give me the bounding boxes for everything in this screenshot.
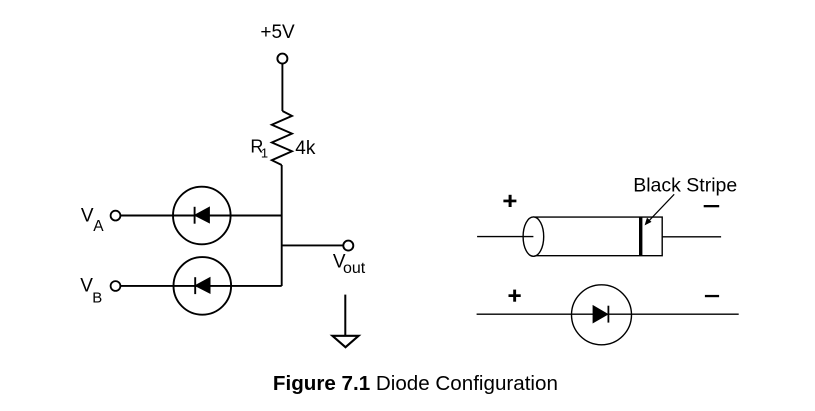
- label - (package cathode): [704, 205, 720, 207]
- svg-text:A: A: [93, 218, 104, 235]
- diode symbol: [593, 306, 608, 323]
- label + (package anode): [503, 195, 516, 207]
- label Vout: [333, 252, 366, 278]
- black stripe mark: [639, 217, 642, 256]
- resistor R1: [272, 111, 292, 165]
- label - (symbol cathode): [705, 295, 719, 297]
- diode D2 circle: [174, 257, 232, 315]
- svg-text:B: B: [92, 289, 102, 306]
- wire package right lead: [662, 236, 721, 238]
- diode D1 circle: [173, 187, 231, 245]
- wire VB input: [121, 285, 282, 287]
- diode D1 symbol: [195, 207, 210, 224]
- wire +5V terminal to resistor top: [281, 64, 283, 111]
- node +5V label: [260, 22, 295, 43]
- value label 4k: [295, 138, 316, 159]
- svg-text:Figure 7.1 Diode Configuration: Figure 7.1 Diode Configuration: [273, 372, 558, 395]
- pointer arrow to stripe: [645, 194, 675, 225]
- package body: [533, 217, 662, 256]
- wire resistor bottom to output bus: [281, 165, 283, 286]
- wire to Vout terminal: [282, 244, 344, 246]
- svg-text:+5V: +5V: [260, 22, 295, 43]
- svg-text:V: V: [81, 206, 94, 227]
- terminal VA: [111, 211, 121, 221]
- svg-text:1: 1: [261, 145, 268, 160]
- diode symbol circle: [572, 285, 632, 345]
- label VB: [80, 276, 102, 307]
- wire VA input: [121, 215, 282, 217]
- svg-text:Black Stripe: Black Stripe: [633, 175, 737, 197]
- label VA: [81, 206, 104, 235]
- label Black Stripe: [633, 175, 737, 197]
- svg-text:out: out: [343, 260, 366, 277]
- label R1: [250, 136, 268, 160]
- ground: [332, 295, 358, 348]
- package left end ellipse: [523, 217, 544, 256]
- wire diode symbol: [477, 313, 739, 315]
- wire package left lead: [477, 236, 533, 238]
- terminal Vout: [343, 241, 353, 251]
- terminal VB: [111, 281, 121, 291]
- label + (symbol anode): [509, 290, 521, 302]
- diode D2 symbol: [195, 277, 210, 294]
- svg-text:4k: 4k: [295, 138, 316, 159]
- caption Figure 7.1 Diode Configuration: [273, 372, 558, 395]
- +5V terminal: [277, 54, 287, 64]
